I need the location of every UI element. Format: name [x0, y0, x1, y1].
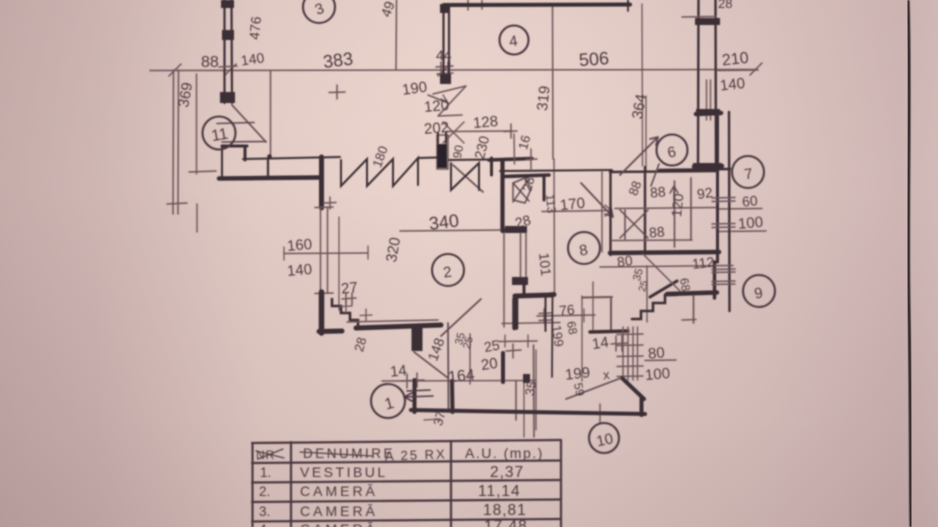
vertical divider x554 lower: [553, 159, 556, 294]
svg-text:112: 112: [691, 254, 715, 272]
blob hall wall y230: [505, 226, 527, 233]
bathroom arrow: [670, 186, 678, 202]
tick under 37: [424, 419, 440, 420]
plus ticks near 20: [506, 350, 521, 351]
plus ticks on y341: [505, 335, 528, 347]
left wall of room2 upper: [319, 157, 324, 208]
big diagonal swing: [441, 299, 481, 336]
placeholder groups: [150, 0, 766, 437]
vertical divider x552: [552, 6, 555, 159]
wall y331 x590-628: [590, 331, 628, 332]
plus mark at 337,92: [329, 91, 345, 94]
blob left wall y34: [222, 30, 234, 40]
svg-text:68: 68: [677, 277, 693, 293]
svg-text:4.: 4.: [259, 522, 270, 527]
svg-text:14: 14: [389, 362, 407, 381]
svg-text:88: 88: [649, 183, 666, 200]
zigzag window band left: [341, 158, 418, 186]
svg-text:CAMERĂ: CAMERĂ: [300, 521, 378, 527]
door diagonal under chimney: [453, 165, 483, 192]
svg-text:3.: 3.: [259, 504, 270, 519]
T notch below wall: [412, 328, 423, 351]
table row line 3: [252, 519, 561, 522]
pentagon door symbol: [513, 178, 531, 203]
svg-text:35: 35: [522, 380, 539, 397]
page right border line: [908, 0, 911, 527]
bottom wall upper thin edge: [347, 320, 438, 322]
svg-text:140: 140: [240, 49, 266, 68]
vertical stub x197 below dim: [196, 204, 198, 232]
table col border 2: [450, 441, 452, 527]
zigzag window band right: [451, 163, 479, 190]
svg-text:1.: 1.: [260, 465, 271, 480]
svg-text:14: 14: [591, 334, 610, 353]
svg-text:68: 68: [564, 320, 580, 336]
blob hall wall y281: [512, 277, 528, 285]
hall top wall left piece: [489, 159, 532, 161]
svg-text:11: 11: [210, 126, 229, 146]
svg-text:80: 80: [616, 252, 634, 270]
wall x514 y299-327: [512, 299, 517, 328]
door swing room11 top line: [217, 123, 254, 124]
dim line 210/140 right: [718, 69, 758, 72]
wall horizontal y169 x659-730: [659, 169, 730, 170]
svg-text:2.: 2.: [259, 484, 270, 499]
wall top room4: [444, 3, 630, 8]
svg-text:76: 76: [558, 301, 575, 318]
bathroom inner vertical x645: [644, 167, 646, 254]
dim line room1 y381: [382, 380, 536, 383]
table line below header: [252, 461, 561, 464]
svg-text:CAMERĂ: CAMERĂ: [300, 483, 378, 499]
dark bar y166 right: [694, 164, 722, 169]
tick left wall y66: [219, 66, 237, 67]
svg-text:28: 28: [718, 0, 732, 11]
staircase steps: [332, 299, 358, 328]
circle 1: [371, 384, 405, 418]
dark bar top-right wall y21: [695, 18, 720, 25]
hall wall vertical dark x502: [500, 161, 504, 231]
svg-text:2,37: 2,37: [490, 464, 524, 481]
tick top right y17: [682, 16, 716, 19]
svg-text:383: 383: [322, 48, 354, 72]
cap top room4 wall: [440, 4, 450, 13]
cap bottom room4 wall: [440, 74, 451, 84]
node dot at 504,231: [502, 228, 506, 232]
vertical divider x642: [641, 4, 644, 166]
table right border: [560, 440, 562, 527]
bathroom mid horizontal y240: [612, 239, 692, 242]
wall stub x268: [267, 159, 269, 178]
dim line 190 arrow: [428, 95, 448, 103]
dim vertical x647 lower: [646, 266, 648, 322]
svg-text:17,48: 17,48: [484, 518, 528, 527]
tick on top wall x482: [481, 0, 483, 9]
svg-text:88: 88: [648, 223, 665, 240]
vertical divider x396: [395, 0, 398, 70]
horizontal y266 line right-bottom: [600, 266, 733, 268]
svg-text:113: 113: [543, 194, 559, 215]
vertical thin x514: [513, 134, 516, 164]
window end ticks: [315, 207, 333, 294]
door X marks mid top: [433, 86, 466, 116]
svg-text:170: 170: [559, 195, 586, 215]
right wall double x717/x729: [716, 112, 719, 262]
window ticks right wall y269-284: [712, 269, 735, 285]
wall top-right double x698-716: [698, 0, 716, 170]
dim vertical x470: [469, 334, 471, 384]
staircase steps right: [632, 295, 676, 319]
node at 269,156: [267, 154, 272, 159]
svg-text:319: 319: [534, 85, 554, 112]
svg-text:101: 101: [536, 252, 554, 277]
small wall double x438-446 y133-170: [438, 133, 446, 143]
dim line 340 room2: [400, 230, 505, 231]
tick y319: [682, 319, 696, 322]
svg-text:20: 20: [480, 355, 499, 374]
arrow from circle 1: [404, 390, 433, 401]
dim vertical x646 room6: [645, 96, 647, 170]
bathroom top: [610, 171, 718, 172]
bottom wall room1 top: [356, 325, 441, 328]
bathroom mid horizontal y208: [615, 208, 717, 209]
blob left wall y0: [221, 0, 234, 8]
vertical dim x339 window: [338, 217, 340, 310]
dim line 80/100 bottom right: [645, 359, 676, 362]
wall stub x544 y176-200: [543, 176, 546, 200]
plus ticks near 14 room1: [406, 374, 408, 388]
plus at 511,131: [504, 130, 517, 133]
svg-text:210: 210: [721, 50, 749, 70]
svg-text:476: 476: [246, 16, 264, 41]
dark bar top-right wall y112: [696, 109, 720, 115]
hall wall corner vertical: [490, 158, 493, 175]
svg-text:27: 27: [340, 279, 358, 298]
door swing room11 diagonal: [232, 105, 266, 142]
svg-text:44: 44: [436, 47, 452, 63]
hall wall top y170 right: [500, 170, 612, 171]
svg-text:25: 25: [483, 337, 501, 355]
circle 7: [732, 156, 764, 188]
dim vertical x533 below: [533, 345, 536, 437]
hall window double x524-529: [521, 233, 527, 280]
svg-text:340: 340: [428, 210, 460, 234]
bottom wall short left: [319, 329, 342, 335]
svg-text:88: 88: [201, 54, 219, 71]
svg-text:10: 10: [595, 430, 615, 450]
tick x197 y171: [189, 171, 216, 172]
room6 short diagonal: [651, 164, 659, 186]
dim vertical x600 circle10: [599, 404, 601, 424]
tick on top wall x468: [467, 0, 469, 10]
end tick of 369: [167, 203, 187, 204]
left wall of room2 lower: [319, 292, 325, 333]
cap rect x523: [523, 374, 530, 383]
blob left wall y97: [220, 92, 235, 103]
wall stub x527: [523, 284, 526, 295]
svg-text:100: 100: [644, 365, 670, 384]
dim line 160/140: [284, 252, 368, 255]
wall step under circle11: [222, 145, 247, 148]
window double verticals x623-637: [623, 327, 638, 380]
door leaf edge bathroom: [624, 210, 626, 239]
tick at x175: [169, 64, 181, 76]
svg-text:90: 90: [450, 144, 466, 160]
right wall x714 y262-298: [713, 262, 716, 298]
inner lines top-right wall: [707, 80, 711, 120]
wall near circle9 horizontal: [667, 293, 717, 295]
dim line 202: [446, 130, 512, 133]
dim line 100 right: [718, 230, 766, 233]
svg-text:A.U. (mp.): A.U. (mp.): [465, 445, 544, 461]
door jamb vertical x448: [447, 323, 450, 412]
tick end of top wall: [627, 0, 629, 11]
svg-text:60: 60: [741, 192, 758, 209]
tick at x756: [750, 63, 762, 75]
svg-text:140: 140: [719, 75, 746, 95]
dark bar top-right wall y167: [693, 163, 722, 170]
vertical dim x504: [503, 231, 505, 327]
vertical thin x531 with tick: [526, 149, 537, 170]
svg-text:11,14: 11,14: [478, 483, 521, 500]
dim vertical x516 below: [515, 381, 517, 420]
left dim double vertical 369: [172, 70, 175, 214]
wall x516 y296-327: [515, 296, 519, 328]
table col border 1: [290, 442, 292, 527]
ticks 27 left: [342, 298, 356, 299]
svg-text:190: 190: [401, 79, 428, 99]
dim vertical x593: [592, 282, 594, 331]
plus ticks x545 window: [539, 312, 551, 315]
diagonal door wc: [643, 254, 680, 291]
window ticks: [617, 334, 643, 377]
hall top wall y174: [504, 175, 549, 177]
svg-text:128: 128: [472, 113, 498, 132]
svg-text:92: 92: [696, 184, 714, 202]
zigzag right top edge: [449, 159, 490, 162]
circle 2: [432, 254, 464, 286]
left door wall double x224-232: [225, 0, 233, 103]
step plus ticks: [340, 300, 352, 312]
plus ticks at wall top x324-334: [324, 197, 336, 209]
tick at x444: [438, 64, 450, 76]
bathroom inner vertical x691: [690, 178, 692, 240]
main thick wall y178: [219, 178, 319, 179]
door swing room11 base: [222, 141, 266, 144]
dim line y341 left: [498, 340, 537, 343]
wall vertical x641: [640, 398, 644, 415]
vertical thin x196: [196, 74, 198, 174]
X hatch in pentagon: [513, 180, 529, 202]
wall room1 bottom long: [411, 410, 645, 414]
circle 11: [203, 117, 236, 150]
dim line main horizontal y70: [150, 70, 757, 71]
thick wall y295: [515, 295, 554, 297]
table left border: [251, 443, 253, 527]
svg-text:120: 120: [668, 193, 686, 218]
chimney outline mid top: [437, 135, 448, 169]
ticks near 14 bottom: [611, 343, 628, 344]
svg-text:140: 140: [286, 261, 312, 280]
table row line 2: [252, 500, 561, 503]
svg-text:199: 199: [549, 324, 567, 348]
circle 4: [500, 26, 529, 55]
window ticks right wall y197-227: [712, 198, 735, 228]
bathroom bottom thick: [610, 252, 719, 253]
dim verticals x535 x523 under room1: [535, 350, 537, 430]
svg-text:160: 160: [286, 236, 312, 255]
wall room1 right: [450, 381, 455, 412]
svg-text:199: 199: [564, 364, 591, 384]
zigzag top edge: [418, 157, 437, 160]
L wall right of x582: [582, 297, 612, 330]
circle 8: [568, 232, 600, 264]
bathroom inner vertical x674: [674, 181, 676, 247]
circle 6: [657, 135, 688, 166]
svg-text:VESTIBUL: VESTIBUL: [300, 464, 388, 480]
wall left of room4 double: [444, 5, 450, 83]
vertical thin x270: [270, 71, 272, 156]
svg-text:202: 202: [423, 119, 449, 138]
vertical thin x693: [693, 296, 695, 323]
bathroom X hatch: [620, 210, 648, 238]
dim line 170 under label: [542, 205, 612, 216]
wall room1 left: [413, 380, 417, 412]
dim vertical x523 below: [523, 382, 525, 437]
circle 10: [589, 423, 619, 453]
svg-text:100: 100: [737, 214, 763, 233]
svg-text:CAMERĂ: CAMERĂ: [300, 503, 378, 519]
table outer top: [252, 440, 561, 443]
ticks 44 below label: [436, 66, 453, 67]
svg-text:18,81: 18,81: [483, 502, 527, 519]
circle 9: [743, 275, 775, 307]
wall x501-505 y353-382: [501, 353, 505, 382]
svg-text:120: 120: [423, 97, 449, 116]
diagonal door near chamfer: [566, 378, 621, 399]
dark bar y113: [696, 113, 721, 114]
table row line 1: [252, 480, 561, 483]
room6 door diagonal with arrow: [620, 137, 658, 175]
tick at x230: [224, 64, 236, 76]
dim vertical x582: [581, 296, 583, 381]
svg-text:80: 80: [647, 344, 665, 362]
vertical thin x602 bathroom left: [601, 172, 603, 252]
svg-text:A 25 RX: A 25 RX: [385, 446, 447, 463]
wall verticals x545 x552 below: [545, 296, 547, 331]
door swing room1 diagonal: [414, 352, 448, 378]
diagonal stub circle9: [650, 281, 677, 297]
svg-text:506: 506: [578, 48, 609, 70]
svg-text:164: 164: [447, 367, 475, 387]
chimney dark fill: [437, 144, 447, 168]
bathroom outline left: [609, 171, 611, 255]
dim line 60 right: [718, 208, 762, 211]
dim line 76: [537, 315, 595, 316]
thin edge y323 right: [502, 323, 560, 324]
circle 3: [303, 0, 335, 23]
chamfer corner bottom right: [622, 378, 644, 399]
window left room2 double lines: [321, 207, 328, 293]
door swing room8 diagonal: [581, 183, 613, 217]
